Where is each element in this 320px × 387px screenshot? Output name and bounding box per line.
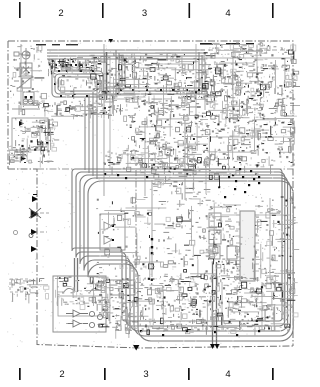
component cluster right mid bbox=[252, 196, 299, 282]
wire vertical x262 bottom bbox=[261, 282, 263, 330]
section divider dash-dot horizontal mid bbox=[37, 168, 293, 170]
component cluster mid left-of-center bbox=[126, 114, 217, 174]
indicator circles photocoupler bbox=[23, 99, 33, 104]
transistor module Q2 bbox=[209, 230, 221, 244]
grid reference tick top 4 bbox=[272, 3, 274, 18]
arrow marker left border lower bbox=[33, 194, 37, 195]
diode D1 on border bbox=[32, 196, 38, 202]
IC U1 tall package bbox=[240, 211, 255, 281]
wire bus vertical bundle x85 down to main bus bbox=[85, 89, 97, 179]
svg-text:3: 3 bbox=[143, 369, 148, 380]
grid reference tick top 1 bbox=[19, 2, 21, 18]
grid reference tick bottom 2 bbox=[104, 368, 106, 380]
wire stub dash-dot right of D2 bbox=[40, 213, 49, 232]
wire vertical x106 heavy bbox=[106, 52, 108, 100]
outer boundary dash-dot border bbox=[8, 41, 293, 348]
IC U1 pin stubs bbox=[236, 215, 259, 278]
node marker triangle bottom border bbox=[133, 345, 139, 351]
wire main bus loop bundle bbox=[72, 169, 293, 341]
fuse F1 small box bbox=[14, 52, 23, 56]
wire heavy vertical pair into block bbox=[75, 258, 78, 292]
junction dots opamp box bbox=[112, 225, 114, 241]
sub-circuit block lower-left bbox=[53, 276, 106, 332]
wire vertical x270 bbox=[269, 198, 271, 280]
varistor RV1 with diagonal bbox=[14, 76, 33, 89]
wire bus vertical bundle x118 bbox=[116, 50, 125, 96]
component cluster left of divider bbox=[103, 150, 145, 175]
svg-text:3: 3 bbox=[142, 8, 147, 19]
wire horizontal left column bottom bbox=[12, 108, 40, 110]
logic gate circle 1 bbox=[89, 311, 94, 316]
wire vertical x233 bbox=[232, 50, 234, 116]
junction dots on loop bbox=[54, 70, 99, 97]
node marker left edge 2 bbox=[21, 156, 26, 161]
svg-text:4: 4 bbox=[225, 369, 230, 380]
wire vertical x222 bottom bbox=[221, 282, 223, 330]
section divider dashed top inner bbox=[120, 49, 291, 51]
wire horizontal y215 right bbox=[222, 214, 290, 216]
wire vertical x196 bbox=[195, 44, 197, 120]
component cluster right below bbox=[259, 93, 301, 117]
inner box lower-left block bbox=[58, 296, 102, 316]
component cluster left column top bbox=[10, 45, 46, 115]
junction dots row y65 bbox=[55, 64, 87, 66]
component cluster transistor column bbox=[206, 204, 245, 280]
component cluster along main bus bbox=[152, 164, 274, 186]
node marker triangle top bbox=[109, 39, 114, 43]
grid reference tick top 2 bbox=[102, 3, 104, 18]
transistor Q5 arc bbox=[64, 288, 99, 292]
wire bus top horizontal bundle bbox=[47, 50, 205, 59]
grid reference tick top 3 bbox=[189, 3, 191, 18]
component cluster top right edge bbox=[260, 45, 304, 97]
wire vertical feeder pair bbox=[213, 262, 217, 344]
logic gate buffer 2 bbox=[66, 320, 88, 327]
junction dots wire x152 bbox=[151, 238, 153, 254]
junction dots cluster below bus right-center bbox=[218, 168, 260, 198]
wire vertical x110 bbox=[109, 56, 111, 170]
component cluster center bbox=[96, 196, 219, 282]
bus label dashes top right bbox=[200, 43, 254, 45]
wire bus right stub vertical x202 bbox=[199, 52, 205, 95]
grid reference tick bottom 1 bbox=[19, 368, 21, 380]
junction dots bottom bus bbox=[140, 330, 260, 336]
section divider dash-dot vertical mid bbox=[135, 170, 137, 277]
diode D4 bbox=[31, 246, 37, 252]
transistor module Q1 bbox=[209, 213, 221, 227]
logic gate circle 2 bbox=[97, 314, 102, 319]
junction dots photocoupler bbox=[25, 96, 33, 99]
grid reference tick bottom 3 bbox=[188, 368, 190, 380]
bus label dashes top left bbox=[36, 44, 78, 45]
logic gate circle 3 bbox=[89, 322, 94, 327]
wire bus mid horizontal bundle y90 bbox=[104, 88, 205, 94]
relay coil K1 circle with cross bbox=[22, 48, 30, 66]
svg-text:2: 2 bbox=[58, 8, 63, 19]
wire left column vertical x21 bbox=[20, 44, 22, 112]
transistor module Q4 bbox=[227, 246, 237, 259]
component cluster dashed box bbox=[12, 278, 49, 303]
component cluster mid right bbox=[209, 114, 295, 174]
wire vertical x152 bbox=[151, 180, 153, 277]
wire stubs from top bundle bbox=[55, 59, 94, 71]
svg-text:4: 4 bbox=[225, 8, 230, 19]
component cluster lower-left block bbox=[55, 276, 110, 310]
junction dots box left mid bbox=[40, 142, 48, 144]
transistor module Q3 bbox=[209, 246, 220, 259]
component cluster loop interior bbox=[53, 73, 111, 99]
component cluster loop top strip bbox=[48, 57, 102, 76]
dashed annotation box bbox=[10, 279, 30, 292]
component cluster below top section bbox=[149, 146, 211, 200]
svg-text:2: 2 bbox=[59, 369, 64, 380]
wire vertical x185 bbox=[184, 120, 186, 200]
node marker left edge 1 bbox=[19, 121, 24, 126]
diode D2 junction cross bbox=[29, 208, 41, 218]
component cluster top right inner bbox=[205, 42, 267, 125]
wire vertical x104 bbox=[103, 44, 105, 196]
sub-circuit box bottom mid bbox=[110, 280, 135, 295]
wire horizontal y137 right bbox=[210, 136, 290, 138]
sub-circuit box left mid bbox=[12, 118, 48, 150]
wire vertical x145 bbox=[144, 118, 146, 196]
diode D3 with circle bbox=[14, 229, 38, 238]
component cluster top middle bbox=[88, 52, 214, 124]
junction dots main bus bbox=[104, 173, 260, 179]
ground arrow terminals feeder pair bbox=[210, 344, 220, 349]
component cluster left labels bbox=[8, 146, 53, 167]
sub-circuit frame top right bbox=[205, 58, 290, 110]
net label dashes left mid bbox=[17, 151, 29, 156]
grid reference tick bottom 4 bbox=[272, 368, 274, 380]
wire nested loop rectangles bbox=[52, 71, 103, 97]
photocoupler box with LEDs bbox=[23, 92, 34, 105]
transformer T1 box with cross bbox=[14, 63, 32, 76]
scan noise speckle bbox=[6, 41, 294, 349]
component cluster bottom band bbox=[98, 276, 298, 339]
component cluster left mid box bbox=[13, 118, 59, 156]
op-amp block box bbox=[100, 214, 125, 250]
component cluster below loop bbox=[36, 100, 102, 119]
junction dots row y90 bbox=[120, 89, 200, 91]
logic gate buffer 1 bbox=[66, 310, 88, 317]
